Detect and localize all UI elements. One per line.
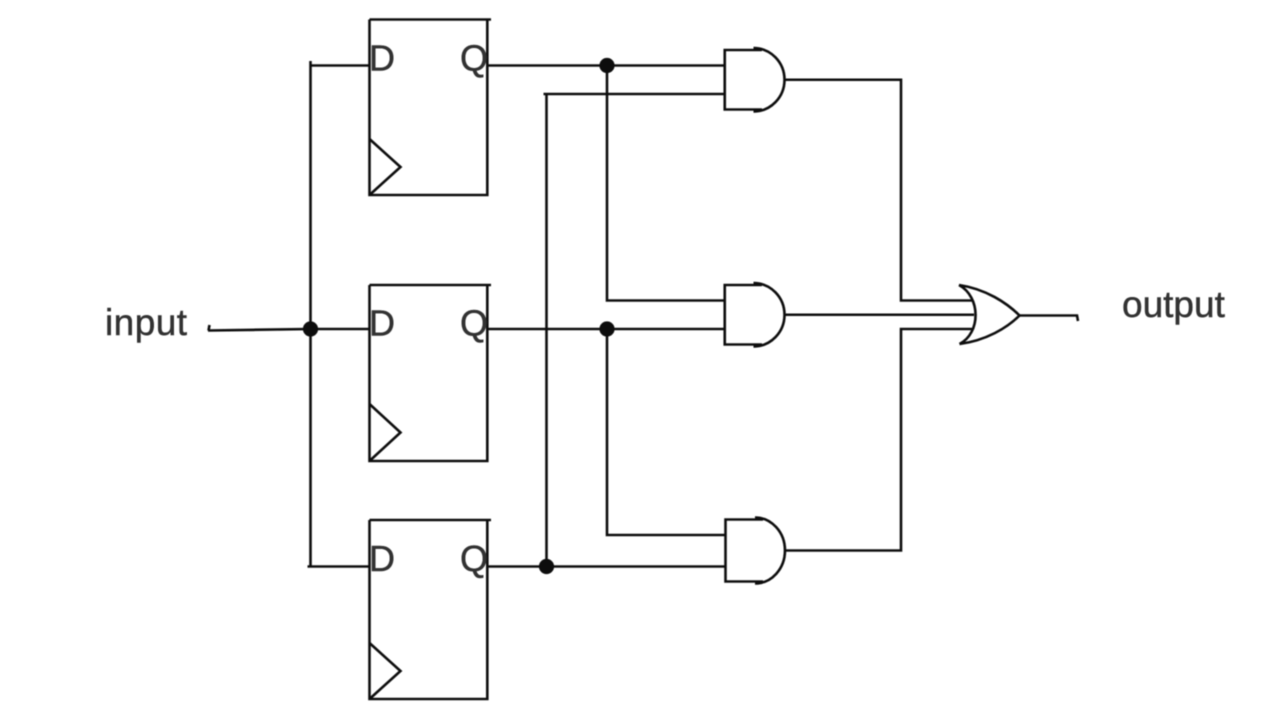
- wire: Q3 output to AND gate G3: [487, 565, 725, 568]
- wire: Q1 output to AND gate G1: [487, 64, 724, 67]
- wire: Q3 riser to AND gate G1: [544, 94, 725, 567]
- wire: input vertical bus: [308, 61, 311, 567]
- wire: D input lead of U3: [311, 565, 370, 568]
- svg-text:output: output: [1122, 284, 1226, 325]
- wire: G3 output up to OR gate: [785, 329, 973, 551]
- AND gate G2: [725, 283, 785, 347]
- wire: G1 output down to OR gate: [784, 80, 973, 301]
- svg-text:D: D: [369, 38, 395, 79]
- flip-flop U1 body: [370, 20, 492, 196]
- svg-text:Q: Q: [460, 538, 488, 579]
- wire: D input lead of U2: [311, 328, 370, 331]
- node: Q2 junction: [599, 321, 614, 336]
- flip-flop U3 body: [370, 520, 492, 699]
- OR gate G4: [959, 285, 1020, 344]
- AND gate G3: [726, 518, 785, 584]
- node: input junction: [303, 321, 318, 336]
- wire: Q2 branch down to AND gate G3: [607, 329, 726, 535]
- wire: D input lead of U1: [311, 64, 370, 67]
- clock input triangle of U2: [370, 404, 401, 461]
- svg-text:Q: Q: [460, 303, 488, 344]
- svg-text:input: input: [105, 302, 188, 343]
- flip-flop U2 body: [370, 285, 492, 461]
- wire: Q2 output to AND gate G2: [487, 328, 724, 331]
- node: Q1 junction: [599, 58, 614, 73]
- wire: input lead: [208, 325, 311, 331]
- AND gate G1: [725, 48, 785, 112]
- svg-text:D: D: [369, 538, 395, 579]
- wire: Q1 branch down to AND gate G2: [607, 66, 724, 301]
- wire: G2 output to OR gate: [784, 313, 974, 316]
- svg-text:D: D: [369, 303, 395, 344]
- wire: OR output lead: [1020, 316, 1079, 322]
- svg-text:Q: Q: [460, 38, 488, 79]
- node: Q3 junction: [539, 559, 554, 574]
- clock input triangle of U3: [370, 643, 401, 699]
- clock input triangle of U1: [370, 139, 401, 195]
